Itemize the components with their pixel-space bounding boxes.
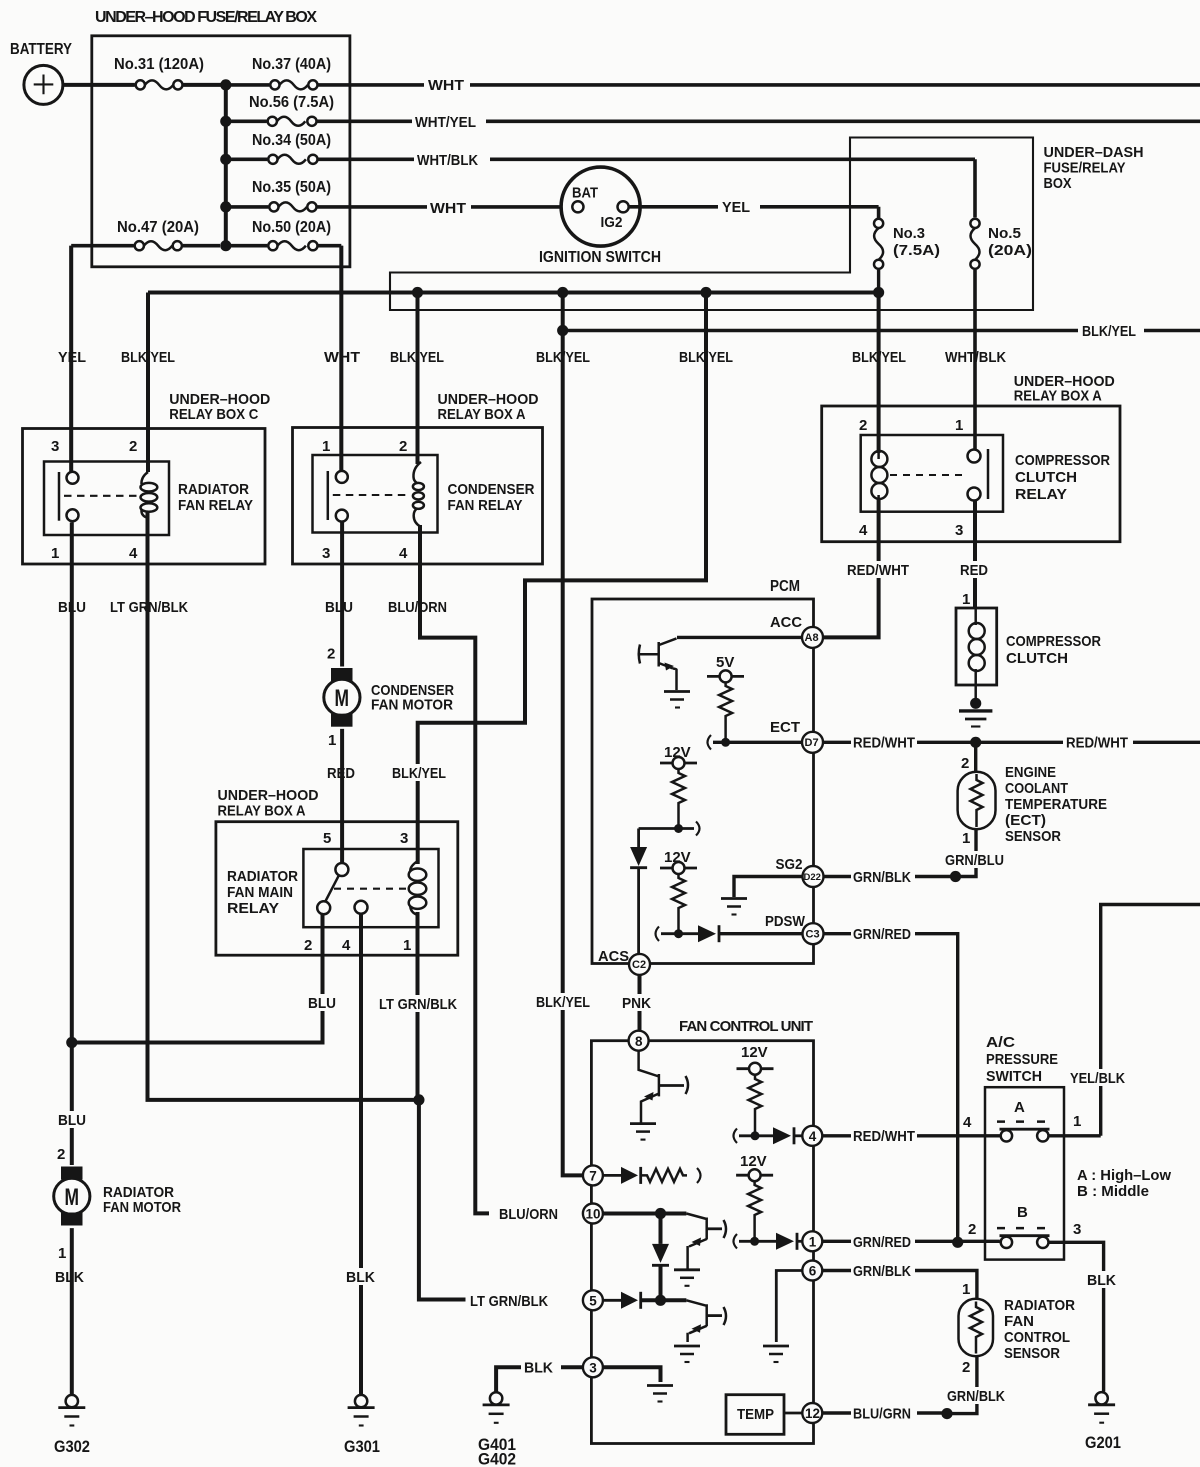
relay box outline (compressor) [822,406,1120,542]
resistor R3 (12V) [672,874,685,934]
svg-text:(20A): (20A) [988,242,1032,259]
svg-text:No.56 (7.5A): No.56 (7.5A) [249,94,334,111]
svg-text:WHT: WHT [428,77,464,94]
svg-text:FAN MAIN: FAN MAIN [227,884,293,901]
svg-text:BLU: BLU [325,599,353,616]
svg-text:8: 8 [635,1034,643,1049]
svg-text:M: M [335,685,350,712]
svg-text:1: 1 [1073,1113,1081,1130]
diode D6 (pin5) [603,1299,621,1302]
svg-text:PCM: PCM [770,578,800,595]
wire WHT label (to ignition) [427,198,471,216]
svg-text:1: 1 [51,545,59,562]
svg-text:PDSW: PDSW [765,913,806,930]
svg-text:RELAY BOX A: RELAY BOX A [1014,388,1102,405]
svg-text:2: 2 [961,755,969,772]
svg-text:RED: RED [327,765,355,782]
wire ECT internal [713,741,802,744]
svg-text:BLU/ORN: BLU/ORN [388,599,447,616]
svg-text:FAN RELAY: FAN RELAY [448,497,523,514]
wire GRN/BLK (FCU pin6 to sensor pin1) [822,1271,977,1299]
svg-text:GRN/BLU: GRN/BLU [945,852,1004,869]
diode D7f (pin1) [776,1233,794,1250]
pin 4 [802,1126,822,1146]
wire BLU (box C pin1 down) [70,523,74,1166]
svg-text:1: 1 [328,732,336,749]
svg-text:4: 4 [129,545,138,562]
svg-text:No.37 (40A): No.37 (40A) [252,56,331,73]
svg-text:WHT/BLK: WHT/BLK [417,152,478,169]
svg-text:RED/WHT: RED/WHT [853,1128,915,1145]
svg-text:TEMP: TEMP [737,1406,774,1423]
svg-text:A : High–Low: A : High–Low [1077,1167,1171,1184]
svg-text:No.3: No.3 [893,225,925,242]
ground (SG2) [721,897,747,900]
ground G301 [355,1395,367,1407]
fan control unit box outline [591,1041,813,1444]
svg-text:SENSOR: SENSOR [1005,828,1061,845]
wire BLK (FCU pin3 to G401) [496,1367,583,1391]
svg-text:LT GRN/BLK: LT GRN/BLK [110,599,188,616]
diode D5 (between pin10 and pin5 lines) [659,1214,663,1244]
svg-text:B: B [1017,1204,1028,1221]
wire pin10 internal [603,1212,687,1216]
main relay coil [410,861,417,871]
svg-text:No.34 (50A): No.34 (50A) [252,132,331,149]
under-hood fuse/relay box outline [92,36,350,267]
relay K3 inner box [861,435,1003,512]
node row3 [220,154,231,165]
relay K4 inner box [303,849,438,927]
svg-text:2: 2 [859,417,867,434]
ground (pin3) [647,1384,673,1387]
svg-text:RED/WHT: RED/WHT [847,562,909,579]
svg-text:BLK: BLK [524,1360,553,1377]
wire RED/WHT (FCU pin4 to switch pin4) [822,1134,1100,1137]
TEMP sensor box [726,1395,784,1435]
relay box C outline [23,429,266,565]
svg-text:BLU: BLU [58,1112,86,1129]
svg-text:CLUTCH: CLUTCH [1006,650,1068,667]
svg-text:ACS: ACS [598,948,629,965]
wire RED/WHT (comp relay pin4 to PCM A8) [823,499,879,637]
svg-text:D22: D22 [804,872,821,883]
wire LT GRN/BLK (box C pin4 down) [148,512,419,1100]
svg-text:BLK/YEL: BLK/YEL [392,765,446,782]
wire internal bus vertical [224,85,228,246]
svg-text:2: 2 [57,1146,65,1163]
svg-text:GRN/RED: GRN/RED [853,926,911,943]
svg-text:6: 6 [809,1264,817,1279]
svg-text:BLK/YEL: BLK/YEL [679,349,733,366]
relay coil (condenser) [413,462,421,483]
ground (Q3) [674,1268,700,1271]
wire PDSW internal [661,932,698,935]
svg-text:2: 2 [968,1221,976,1238]
svg-text:A/C: A/C [986,1034,1015,1051]
svg-text:BLK: BLK [346,1269,375,1286]
svg-text:COMPRESSOR: COMPRESSOR [1006,633,1101,650]
relay coil (compressor) [877,453,880,459]
svg-text:BLK: BLK [1087,1272,1116,1289]
wire BLK (radiator fan motor to G302) [70,1228,74,1395]
transistor Q1 (PCM) [659,638,677,690]
svg-text:IG2: IG2 [601,214,623,231]
svg-text:YEL: YEL [722,199,750,216]
svg-text:2: 2 [399,438,407,455]
svg-text:BLK/YEL: BLK/YEL [536,349,590,366]
relay box A outline (condenser) [293,428,543,565]
svg-text:CONDENSER: CONDENSER [448,481,535,498]
node R3-PDSW [674,929,683,938]
resistor R2 (12V) [672,769,685,829]
svg-text:RELAY BOX C: RELAY BOX C [169,406,258,423]
node bus-mainrelay [700,287,711,298]
svg-text:4: 4 [342,937,351,954]
svg-text:3: 3 [955,522,963,539]
wire BLK/YEL branch to right edge [563,329,1200,332]
svg-text:3: 3 [51,438,59,455]
svg-text:2: 2 [327,646,335,663]
wire BLU/GRN (FCU pin12 to splice) [822,1411,947,1414]
svg-text:FAN: FAN [1004,1313,1034,1330]
node GRN/BLK splice [950,871,961,882]
svg-text:1: 1 [403,937,411,954]
svg-text:3: 3 [589,1361,597,1376]
svg-text:YEL/BLK: YEL/BLK [1070,1070,1125,1087]
svg-text:BLK/YEL: BLK/YEL [121,349,175,366]
svg-text:PRESSURE: PRESSURE [986,1051,1058,1068]
svg-text:BLU: BLU [308,995,336,1012]
svg-text:G402: G402 [478,1450,516,1467]
svg-text:GRN/BLK: GRN/BLK [947,1388,1005,1405]
svg-text:CLUTCH: CLUTCH [1015,469,1077,486]
fuse No.3 (7.5A) [874,228,883,260]
pin 5 [583,1290,603,1310]
node R4-diode [751,1131,760,1140]
svg-text:BLK/YEL: BLK/YEL [1082,323,1136,340]
svg-text:ECT: ECT [770,719,800,736]
svg-text:LT GRN/BLK: LT GRN/BLK [379,996,457,1013]
svg-text:RED/WHT: RED/WHT [1066,735,1128,752]
wire RED/WHT (D7 line) [823,741,1200,744]
svg-text:RED: RED [960,562,988,579]
svg-text:12V: 12V [740,1153,767,1170]
node bus-condenser [412,287,423,298]
svg-text:4: 4 [809,1129,817,1144]
wire BLK/YEL (compressor clutch relay coil) [877,293,881,454]
wire YEL ignition to fuse No.3 [629,207,879,219]
ground (PCM transistor) [664,690,690,693]
svg-text:G301: G301 [344,1437,380,1456]
svg-text:1: 1 [809,1235,817,1250]
svg-text:C2: C2 [632,959,646,971]
resistor R1 (5V pullup) [719,682,732,742]
svg-text:A: A [1014,1099,1025,1116]
svg-text:UNDER–DASH: UNDER–DASH [1044,144,1144,161]
main relay switch [335,863,348,876]
svg-text:A8: A8 [805,632,819,644]
ignition switch [561,167,640,246]
transistor Q3 [686,1214,706,1270]
svg-text:3: 3 [1073,1221,1081,1238]
svg-text:BAT: BAT [572,185,598,202]
svg-text:COOLANT: COOLANT [1005,780,1068,797]
svg-text:RELAY: RELAY [1015,486,1067,503]
wire ACC internal [677,636,802,639]
svg-text:(7.5A): (7.5A) [893,242,940,259]
node RED/WHT - ECT [970,737,981,748]
diode D3 (pin4) [773,1127,791,1144]
svg-text:FAN MOTOR: FAN MOTOR [371,697,453,714]
svg-text:IGNITION SWITCH: IGNITION SWITCH [539,249,661,266]
svg-text:3: 3 [400,830,408,847]
svg-text:1: 1 [58,1245,66,1262]
node bus-fcu7 [557,287,568,298]
svg-text:2: 2 [962,1359,970,1376]
svg-text:(ECT): (ECT) [1005,812,1046,829]
svg-text:2: 2 [304,937,312,954]
svg-text:1: 1 [955,417,963,434]
svg-text:PNK: PNK [622,995,651,1012]
wire BLK/YEL (radiator fan relay coil) [146,293,150,473]
svg-text:4: 4 [859,522,868,539]
svg-text:CONTROL: CONTROL [1004,1329,1070,1346]
node BLU/GRN splice [941,1408,952,1419]
svg-text:No.50 (20A): No.50 (20A) [252,219,331,236]
pin 3 [583,1357,603,1377]
node R6-diode [750,1237,759,1246]
svg-text:RELAY BOX A: RELAY BOX A [218,803,306,820]
svg-text:WHT/BLK: WHT/BLK [945,349,1006,366]
svg-text:BLK: BLK [55,1269,84,1286]
svg-text:FUSE/RELAY: FUSE/RELAY [1044,160,1126,177]
svg-text:RADIATOR: RADIATOR [227,868,298,885]
svg-text:BATTERY: BATTERY [10,41,72,58]
svg-text:RELAY BOX A: RELAY BOX A [438,406,526,423]
node D5-pin5 [655,1295,666,1306]
svg-text:RADIATOR: RADIATOR [178,481,249,498]
radiator fan control sensor [959,1299,994,1357]
wire BLK/YEL (condenser relay coil) [416,293,420,465]
svg-text:SENSOR: SENSOR [1004,1345,1060,1362]
wire BLK (switch pin3 to G201) [1049,1242,1103,1391]
node R2-diode [674,824,683,833]
pin 6 [802,1261,822,1281]
wire LT GRN/BLK (main relay pin1 to FCU pin5) [418,912,466,1300]
PCM box outline [592,599,814,964]
fuse No.5 (20A) [971,228,980,260]
relay box outline (main relay) [216,822,458,956]
node Q3 base [655,1208,666,1219]
wire YEL/BLK (right edge to switch pin1) [1101,905,1200,1136]
diode D2 (PDSW) [698,925,716,942]
svg-text:3: 3 [322,545,330,562]
resistor R4 [749,1075,762,1136]
svg-text:B : Middle: B : Middle [1077,1183,1149,1200]
wire GRN/BLU (ECT pin1) [956,829,977,876]
wire GRN/BLK (D22 to junction) [824,875,956,878]
svg-text:2: 2 [129,438,137,455]
ground (pin6) [763,1345,789,1348]
diode D4 + resistor R5 (pin7) [603,1174,621,1177]
svg-text:4: 4 [963,1114,972,1131]
transistor Q2 (FCU top) [639,1051,659,1123]
node LT GRN/BLK junction [413,1094,424,1105]
relay K1 inner box [44,462,169,536]
wire WHT/YEL label [412,112,486,130]
relay contact (condenser) [339,246,343,471]
svg-text:C3: C3 [806,929,820,941]
pin 7 [583,1165,603,1185]
node ECT-R1 [721,738,730,747]
svg-text:BLK/YEL: BLK/YEL [852,349,906,366]
node row5 [220,240,231,251]
svg-text:12: 12 [805,1406,820,1421]
wire GRN/BLK (sensor pin2) [947,1356,977,1413]
svg-text:G201: G201 [1085,1433,1121,1452]
relay coil (box C) [141,472,148,484]
svg-text:1: 1 [962,1281,970,1298]
svg-text:LT GRN/BLK: LT GRN/BLK [470,1293,548,1310]
wire RED (motor to main relay pin5) [340,729,344,863]
wire pin3 internal to ground [603,1367,661,1382]
svg-text:4: 4 [399,545,408,562]
svg-text:D7: D7 [805,737,819,749]
svg-text:1: 1 [962,591,970,608]
wire WHT label (top) [424,75,470,93]
svg-text:GRN/BLK: GRN/BLK [853,869,911,886]
svg-text:No.47 (20A): No.47 (20A) [117,219,199,236]
under-dash fuse/relay box outline [390,138,1033,311]
svg-text:5: 5 [589,1294,597,1309]
wire PNK (C2 to FCU pin8) [638,975,642,1031]
ground (Q4) [674,1345,700,1348]
wire BLK/YEL (to fan control unit pin7) [563,293,583,1176]
A/C pressure switch box outline [985,1087,1064,1259]
svg-text:No.5: No.5 [988,225,1021,242]
svg-text:M: M [65,1184,80,1211]
svg-text:FAN MOTOR: FAN MOTOR [103,1199,181,1216]
svg-text:ACC: ACC [770,614,802,631]
svg-text:FAN RELAY: FAN RELAY [178,497,253,514]
node row4 [220,201,231,212]
wire RED (comp relay pin3 to clutch) [973,501,977,609]
svg-text:TEMPERATURE: TEMPERATURE [1005,796,1107,813]
ground G401/G402 [490,1392,502,1404]
svg-text:RELAY: RELAY [227,900,279,917]
pin 10 [583,1204,603,1224]
wire SG2 internal to ground [734,877,803,898]
ground G201 [1095,1392,1107,1404]
transistor Q4 [686,1300,706,1342]
pin 8 [629,1031,649,1051]
wire BLK/YEL (jog to radiator fan main relay coil) [418,293,706,865]
node bus-comprelay [873,287,884,298]
svg-text:WHT: WHT [430,200,466,217]
svg-text:No.31 (120A): No.31 (120A) [114,56,204,73]
svg-text:1: 1 [962,830,970,847]
wire BLU link (main relay pin2 to motor feed) [72,914,323,1043]
svg-text:GRN/BLK: GRN/BLK [853,1263,911,1280]
svg-text:12V: 12V [741,1044,768,1061]
svg-text:COMPRESSOR: COMPRESSOR [1015,452,1110,469]
svg-text:ENGINE: ENGINE [1005,764,1056,781]
svg-text:BLU/GRN: BLU/GRN [853,1406,911,1423]
wire to ECT pin2 [974,742,977,772]
svg-text:BOX: BOX [1044,175,1072,192]
compressor clutch coil [956,608,997,685]
wire GRN/RED (C3 to A/C switch B) [824,934,958,1243]
svg-text:RED/WHT: RED/WHT [853,735,915,752]
svg-text:BLK/YEL: BLK/YEL [536,994,590,1011]
wire fuse31 to bus [183,83,225,87]
svg-text:G302: G302 [54,1437,90,1456]
node BLU junction [66,1037,77,1048]
svg-text:GRN/RED: GRN/RED [853,1234,911,1251]
node row2 [220,116,231,127]
relay K2 inner box [313,455,438,533]
svg-text:FAN CONTROL UNIT: FAN CONTROL UNIT [679,1018,813,1035]
ground (Q2) [630,1122,656,1125]
wire BLU (condenser pin3 to motor) [340,522,344,667]
svg-text:1: 1 [322,438,330,455]
svg-text:5: 5 [323,830,331,847]
svg-text:WHT/YEL: WHT/YEL [415,114,476,131]
wire pin6 internal to ground [776,1271,802,1343]
diode D1 (to ACS) [637,829,640,848]
ECT sensor [958,772,996,829]
pin 12 [802,1403,822,1423]
svg-text:UNDER–HOOD: UNDER–HOOD [218,787,319,804]
wire GRN/RED (FCU pin1 to switch pin2) [822,1240,1000,1243]
ground (compressor clutch) [970,698,981,709]
ground G302 [66,1395,78,1407]
relay contact (compressor) [968,450,981,463]
svg-text:5V: 5V [716,654,734,671]
svg-text:7: 7 [589,1169,597,1184]
resistor R6 [748,1181,761,1241]
svg-text:BLU/ORN: BLU/ORN [499,1206,558,1223]
node GRN/RED junction [952,1237,963,1248]
svg-text:UNDER–HOOD FUSE/RELAY BOX: UNDER–HOOD FUSE/RELAY BOX [95,9,317,26]
svg-text:No.35 (50A): No.35 (50A) [252,179,331,196]
svg-text:SG2: SG2 [776,856,803,873]
wire main relay pin4 to G301 [359,914,363,1395]
wire BLK/YEL bus [148,291,879,295]
svg-text:BLK/YEL: BLK/YEL [390,349,444,366]
node bus top [220,79,231,90]
svg-text:RADIATOR: RADIATOR [1004,1297,1075,1314]
svg-text:BLU: BLU [58,599,86,616]
wire WHT/BLK label [414,150,490,168]
wire battery to fuse No.31 [63,83,135,87]
svg-text:SWITCH: SWITCH [986,1068,1042,1085]
wire BLU/ORN (condenser pin4 to FCU pin10) [420,525,489,1213]
svg-text:10: 10 [586,1207,601,1222]
pin 1 [802,1231,822,1251]
relay contact (box C) [69,246,73,472]
